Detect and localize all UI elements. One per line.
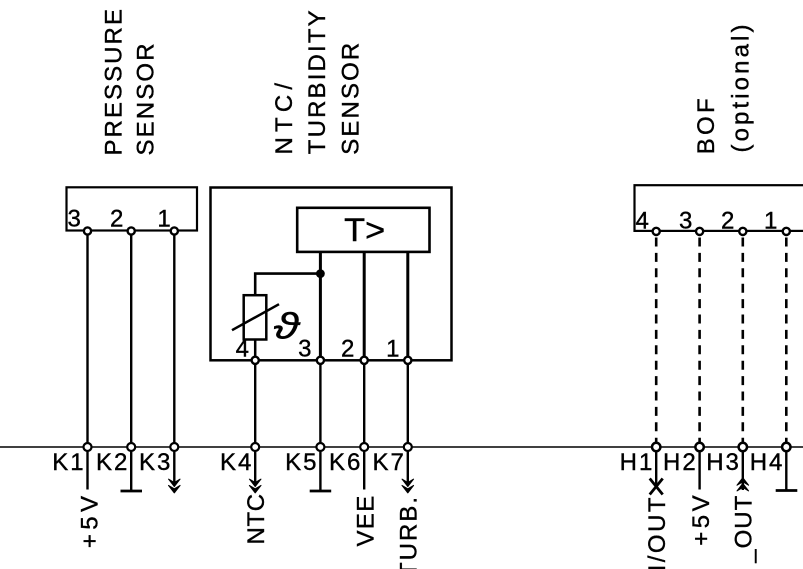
NTC/turbidity sensor box B2 bbox=[211, 188, 452, 361]
arrow up (H3) bbox=[737, 478, 749, 491]
pin circle 3 (BOF) bbox=[696, 228, 703, 235]
wire K3 down bbox=[173, 451, 175, 483]
wire T> box to pin 2 bbox=[363, 252, 366, 360]
dashed wire BOF pin2 to H3 bbox=[741, 238, 744, 444]
terminal K1 bbox=[84, 443, 92, 451]
pin circle 1 (BOF) bbox=[783, 228, 790, 235]
label NTC/TURBIDITY SENSOR bbox=[271, 8, 365, 155]
wire T> box to pin 3 bbox=[319, 252, 322, 360]
svg-text:_OUT: _OUT bbox=[731, 495, 758, 564]
svg-text:T>: T> bbox=[344, 212, 385, 248]
svg-text:4: 4 bbox=[636, 208, 649, 235]
svg-text:K6: K6 bbox=[329, 449, 362, 476]
arrow down (K7) bbox=[402, 479, 414, 493]
thermistor diagonal stroke bbox=[232, 304, 279, 330]
svg-text:3: 3 bbox=[298, 336, 311, 363]
svg-text:+5V: +5V bbox=[688, 492, 715, 546]
svg-text:+5V: +5V bbox=[77, 492, 104, 549]
pressure sensor box B1 bbox=[67, 187, 198, 230]
svg-text:3: 3 bbox=[679, 208, 692, 235]
svg-text:K5: K5 bbox=[285, 449, 318, 476]
wire pressure pin2 to K2 bbox=[130, 231, 132, 448]
svg-text:(optional): (optional) bbox=[727, 21, 754, 152]
pin circle 2 (BOF) bbox=[739, 228, 746, 235]
wire thermistor to pin 4 bbox=[254, 340, 257, 361]
svg-text:SENSOR: SENSOR bbox=[338, 41, 365, 155]
wire H4 to ground bbox=[785, 451, 787, 490]
svg-text:PRESSURE: PRESSURE bbox=[100, 7, 127, 156]
arrow down (K3) bbox=[169, 479, 181, 493]
ground (H4) bbox=[776, 489, 798, 492]
svg-text:1: 1 bbox=[764, 208, 777, 235]
dashed wire BOF pin3 to H2 bbox=[698, 238, 701, 444]
pin circle 2 (NTC box) bbox=[361, 357, 368, 364]
terminal H1 bbox=[652, 443, 660, 451]
wire NTC pin3 to K5 bbox=[319, 360, 321, 447]
terminal K7 bbox=[404, 443, 412, 451]
wire K7 down bbox=[407, 451, 409, 483]
pin circle 1 (NTC box) bbox=[404, 357, 411, 364]
wire NTC pin4 to K4 bbox=[254, 360, 256, 447]
pin circle 1 (pressure sensor) bbox=[171, 227, 178, 234]
svg-text:4: 4 bbox=[236, 336, 249, 363]
dashed wire BOF pin1 to H4 bbox=[785, 238, 788, 444]
wire K4 down bbox=[254, 451, 256, 483]
terminal H2 bbox=[695, 443, 703, 451]
terminal K5 bbox=[316, 443, 324, 451]
wire H2 to +5V bbox=[698, 451, 700, 490]
svg-text:2: 2 bbox=[721, 208, 734, 235]
svg-text:3: 3 bbox=[68, 206, 81, 233]
svg-text:K3: K3 bbox=[139, 449, 172, 476]
svg-text:K7: K7 bbox=[373, 449, 406, 476]
svg-text:H4: H4 bbox=[750, 449, 785, 476]
arrow down (K4) bbox=[249, 479, 261, 493]
svg-text:VEE: VEE bbox=[352, 494, 379, 546]
wire T> box to pin 1 bbox=[406, 252, 409, 360]
wire K5 to ground bbox=[319, 451, 321, 490]
svg-text:NTC/: NTC/ bbox=[271, 78, 298, 155]
bidirectional mark X (H1) bbox=[650, 479, 663, 495]
junction dot (thermistor branch) bbox=[316, 269, 325, 278]
svg-text:2: 2 bbox=[110, 206, 123, 233]
pin circle 2 (pressure sensor) bbox=[128, 227, 135, 234]
svg-text:H3: H3 bbox=[706, 449, 741, 476]
wire pressure pin3 to K1 bbox=[86, 231, 88, 448]
wire NTC pin2 to K6 bbox=[363, 360, 365, 447]
svg-text:TURB.: TURB. bbox=[396, 495, 423, 569]
dashed wire BOF pin4 to H1 bbox=[655, 238, 658, 444]
wire K2 to ground bbox=[130, 451, 132, 490]
svg-text:K2: K2 bbox=[96, 449, 129, 476]
svg-text:2: 2 bbox=[341, 336, 354, 363]
wire H3 down bbox=[742, 451, 744, 490]
terminal K4 bbox=[251, 443, 259, 451]
svg-text:H1: H1 bbox=[620, 449, 655, 476]
svg-text:H2: H2 bbox=[663, 449, 698, 476]
terminal K2 bbox=[127, 443, 135, 451]
svg-text:K4: K4 bbox=[220, 449, 253, 476]
svg-text:1: 1 bbox=[386, 336, 399, 363]
pin circle 3 (NTC box) bbox=[317, 357, 324, 364]
wire NTC pin1 to K7 bbox=[407, 360, 409, 447]
bus line (board edge) bbox=[0, 446, 803, 448]
wire K1 to +5V bbox=[86, 451, 88, 490]
terminal H3 bbox=[739, 443, 747, 451]
pin circle 4 (NTC box) bbox=[252, 357, 259, 364]
ground (K2) bbox=[121, 490, 143, 493]
pin circle 3 (pressure sensor) bbox=[84, 227, 91, 234]
svg-text:1: 1 bbox=[157, 206, 170, 233]
terminal K3 bbox=[170, 443, 178, 451]
terminal H4 bbox=[782, 443, 790, 451]
ground (K5) bbox=[310, 490, 332, 493]
svg-text:TURBIDITY: TURBIDITY bbox=[304, 8, 331, 154]
thermistor R1 (NTC) body bbox=[244, 295, 267, 339]
wire K6 to VEE bbox=[363, 451, 365, 490]
wire pressure pin1 to K3 bbox=[173, 231, 175, 448]
svg-text:BOF: BOF bbox=[693, 95, 720, 154]
wire H1 down bbox=[655, 451, 657, 487]
svg-text:K1: K1 bbox=[52, 449, 85, 476]
terminal K6 bbox=[360, 443, 368, 451]
svg-text:I/OUT: I/OUT bbox=[644, 495, 671, 569]
label BOF (optional) bbox=[693, 21, 754, 154]
wire junction to thermistor top bbox=[255, 274, 320, 296]
svg-text:SENSOR: SENSOR bbox=[133, 41, 160, 155]
comparator box T> bbox=[297, 208, 429, 252]
svg-text:NTC: NTC bbox=[243, 493, 270, 544]
pin circle 4 (BOF) bbox=[653, 228, 660, 235]
label PRESSURE SENSOR bbox=[100, 7, 159, 156]
BOF box B3 bbox=[635, 185, 803, 231]
